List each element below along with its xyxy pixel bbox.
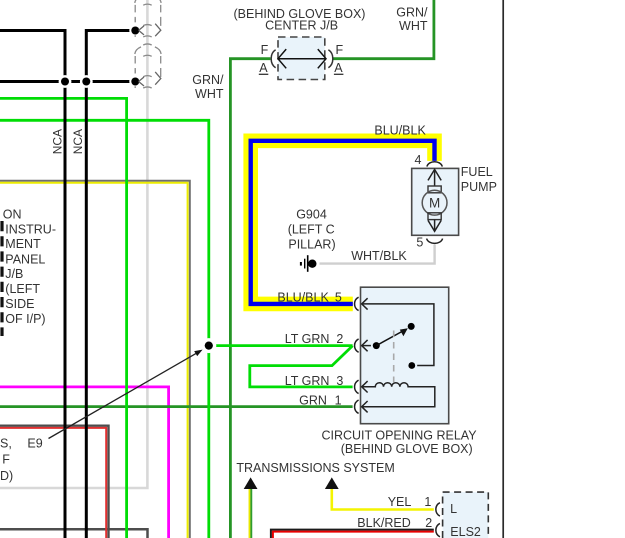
svg-text:3: 3 [336, 374, 343, 388]
svg-text:ELS2: ELS2 [450, 525, 481, 538]
svg-text:TRANSMISSIONS SYSTEM: TRANSMISSIONS SYSTEM [236, 461, 394, 475]
svg-text:2: 2 [336, 332, 343, 346]
svg-text:2: 2 [425, 516, 432, 530]
svg-text:1: 1 [424, 495, 431, 509]
svg-text:F: F [261, 43, 269, 57]
svg-text:YEL: YEL [388, 495, 412, 509]
svg-text:LT GRN: LT GRN [285, 374, 330, 388]
svg-text:4: 4 [415, 153, 422, 167]
svg-text:5: 5 [335, 290, 342, 304]
svg-text:A: A [334, 61, 343, 75]
svg-text:(LEFT C: (LEFT C [288, 223, 335, 237]
svg-text:D): D) [0, 469, 13, 483]
svg-text:E9: E9 [27, 437, 42, 451]
svg-text:INSTRU-: INSTRU- [5, 222, 56, 236]
svg-text:L: L [450, 502, 457, 516]
svg-text:BLU/BLK: BLU/BLK [374, 124, 426, 138]
svg-text:WHT: WHT [195, 87, 224, 101]
svg-text:BLK/RED: BLK/RED [357, 516, 411, 530]
svg-text:CENTER J/B: CENTER J/B [265, 19, 338, 33]
svg-text:1: 1 [335, 393, 342, 407]
svg-text:PILLAR): PILLAR) [288, 238, 335, 252]
svg-text:NCA: NCA [71, 129, 85, 154]
svg-text:F: F [336, 43, 344, 57]
svg-text:WHT/BLK: WHT/BLK [351, 249, 407, 263]
svg-text:MENT: MENT [5, 237, 41, 251]
svg-text:PUMP: PUMP [461, 180, 497, 194]
svg-text:A: A [259, 61, 268, 75]
svg-text:WHT: WHT [399, 19, 428, 33]
svg-text:SIDE: SIDE [5, 297, 34, 311]
svg-text:NCA: NCA [51, 129, 65, 154]
svg-text:GRN/: GRN/ [192, 73, 224, 87]
svg-text:PANEL: PANEL [5, 252, 45, 266]
svg-text:J/B: J/B [5, 267, 23, 281]
svg-text:(BEHIND GLOVE BOX): (BEHIND GLOVE BOX) [341, 442, 473, 456]
svg-text:LT GRN: LT GRN [285, 332, 330, 346]
svg-text:FUEL: FUEL [461, 165, 493, 179]
svg-text:(LEFT: (LEFT [5, 282, 40, 296]
svg-text:BLU/BLK: BLU/BLK [277, 290, 329, 304]
svg-text:CIRCUIT OPENING RELAY: CIRCUIT OPENING RELAY [321, 428, 477, 442]
svg-text:S,: S, [0, 437, 12, 451]
svg-text:M: M [429, 195, 440, 210]
svg-text:GRN: GRN [299, 393, 327, 407]
svg-text:5: 5 [416, 235, 423, 249]
svg-text:OF I/P): OF I/P) [5, 312, 45, 326]
svg-text:F: F [2, 453, 10, 467]
svg-text:GRN/: GRN/ [396, 5, 428, 19]
svg-text:G904: G904 [296, 207, 327, 221]
svg-text:ON: ON [3, 207, 22, 221]
